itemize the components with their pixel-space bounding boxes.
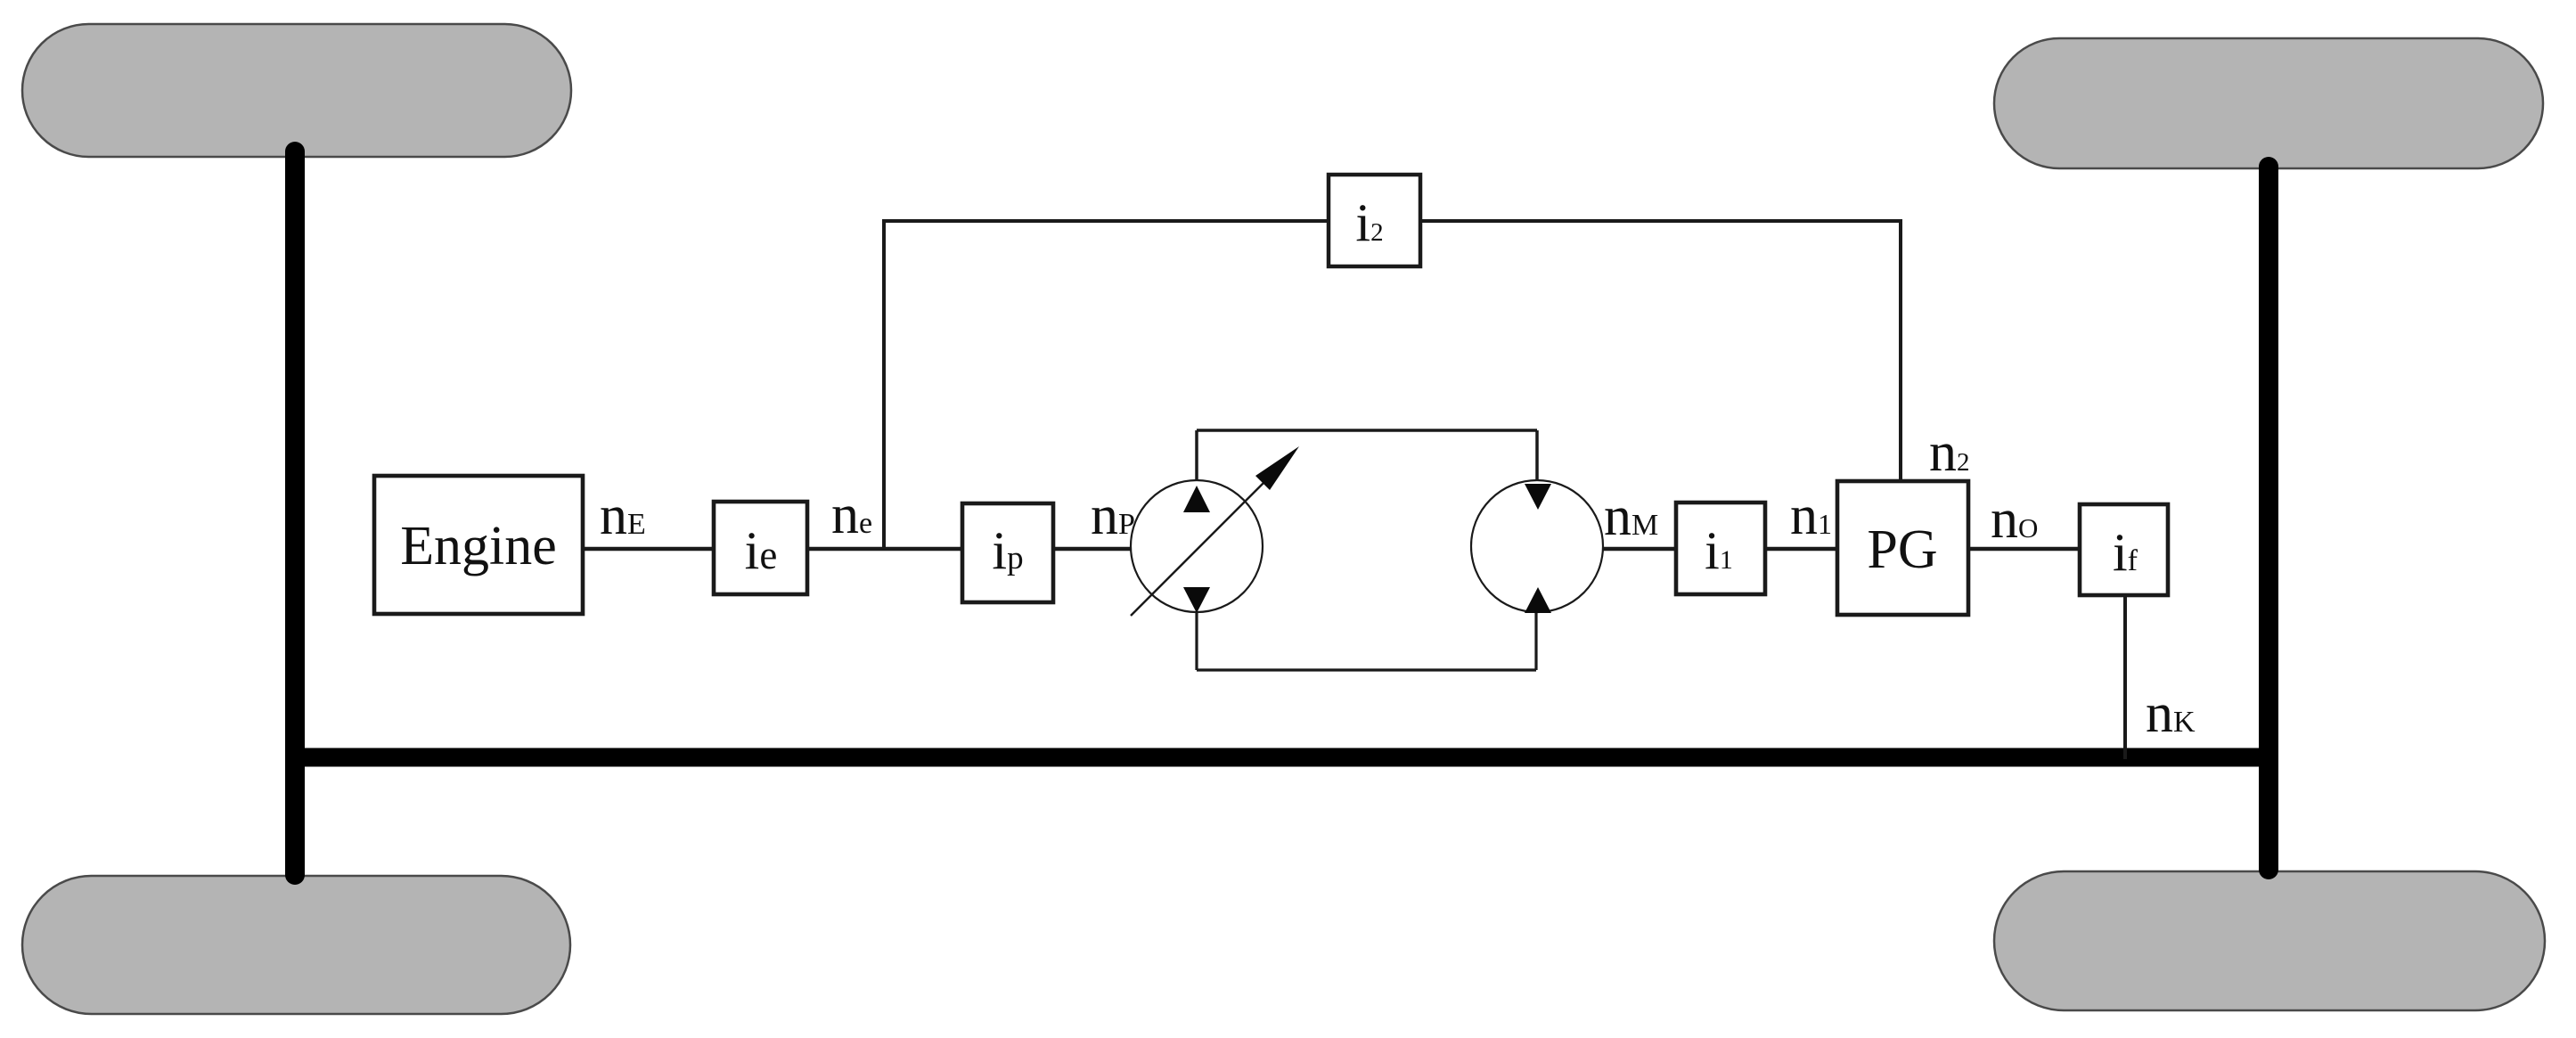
wire node ne riser bbox=[882, 221, 886, 549]
motor bottom stub bbox=[1534, 611, 1537, 670]
motor top stub bbox=[1535, 430, 1539, 482]
gear ip box bbox=[962, 503, 1053, 602]
wire ip to pump (nP shaft) bbox=[1053, 547, 1132, 552]
wire n2 drop to PG bbox=[1899, 219, 1902, 481]
wheel front-left bbox=[22, 24, 571, 157]
motor bottom triangle bbox=[1525, 587, 1551, 613]
wheel rear-left bbox=[22, 876, 570, 1014]
gear i2 box bbox=[1329, 175, 1420, 266]
right axle shaft bbox=[2259, 167, 2278, 870]
pump bottom triangle bbox=[1183, 587, 1210, 613]
pump top triangle bbox=[1183, 486, 1210, 512]
wheel rear-right bbox=[1994, 871, 2545, 1010]
pump bottom stub bbox=[1195, 611, 1198, 670]
svg-text:PG: PG bbox=[1867, 519, 1937, 580]
motor top triangle bbox=[1525, 484, 1551, 510]
hydraulic loop top line bbox=[1197, 429, 1537, 432]
wire PG to if (nO shaft) bbox=[1968, 547, 2080, 552]
gear if box bbox=[2080, 504, 2168, 595]
pump variable arrow head bbox=[1255, 446, 1299, 490]
gear i1 box bbox=[1676, 503, 1765, 594]
wire i2 top right bbox=[1420, 219, 1901, 223]
wire Engine to ie (nE shaft) bbox=[583, 547, 714, 552]
rear drive shaft bar bbox=[288, 748, 2278, 767]
planetary gear PG box bbox=[1837, 481, 1968, 615]
wire ie to ip (ne shaft) bbox=[807, 547, 962, 552]
Engine box bbox=[374, 476, 583, 614]
svg-text:Engine: Engine bbox=[400, 516, 557, 576]
wire i1 to PG (n1 shaft) bbox=[1765, 547, 1837, 552]
hydraulic pump circle bbox=[1131, 480, 1263, 612]
pump top stub bbox=[1195, 430, 1198, 482]
hydraulic motor circle bbox=[1471, 480, 1603, 612]
hydraulic loop bottom line bbox=[1197, 668, 1536, 671]
wire motor to i1 (nM shaft) bbox=[1603, 547, 1676, 552]
pump variable arrow line bbox=[1131, 478, 1268, 616]
wheel front-right bbox=[1994, 38, 2543, 168]
left axle shaft bbox=[285, 151, 305, 875]
wire i2 top left bbox=[882, 219, 1329, 223]
wire if drop to rear shaft (nK) bbox=[2123, 595, 2127, 759]
gear ie box bbox=[714, 502, 807, 594]
